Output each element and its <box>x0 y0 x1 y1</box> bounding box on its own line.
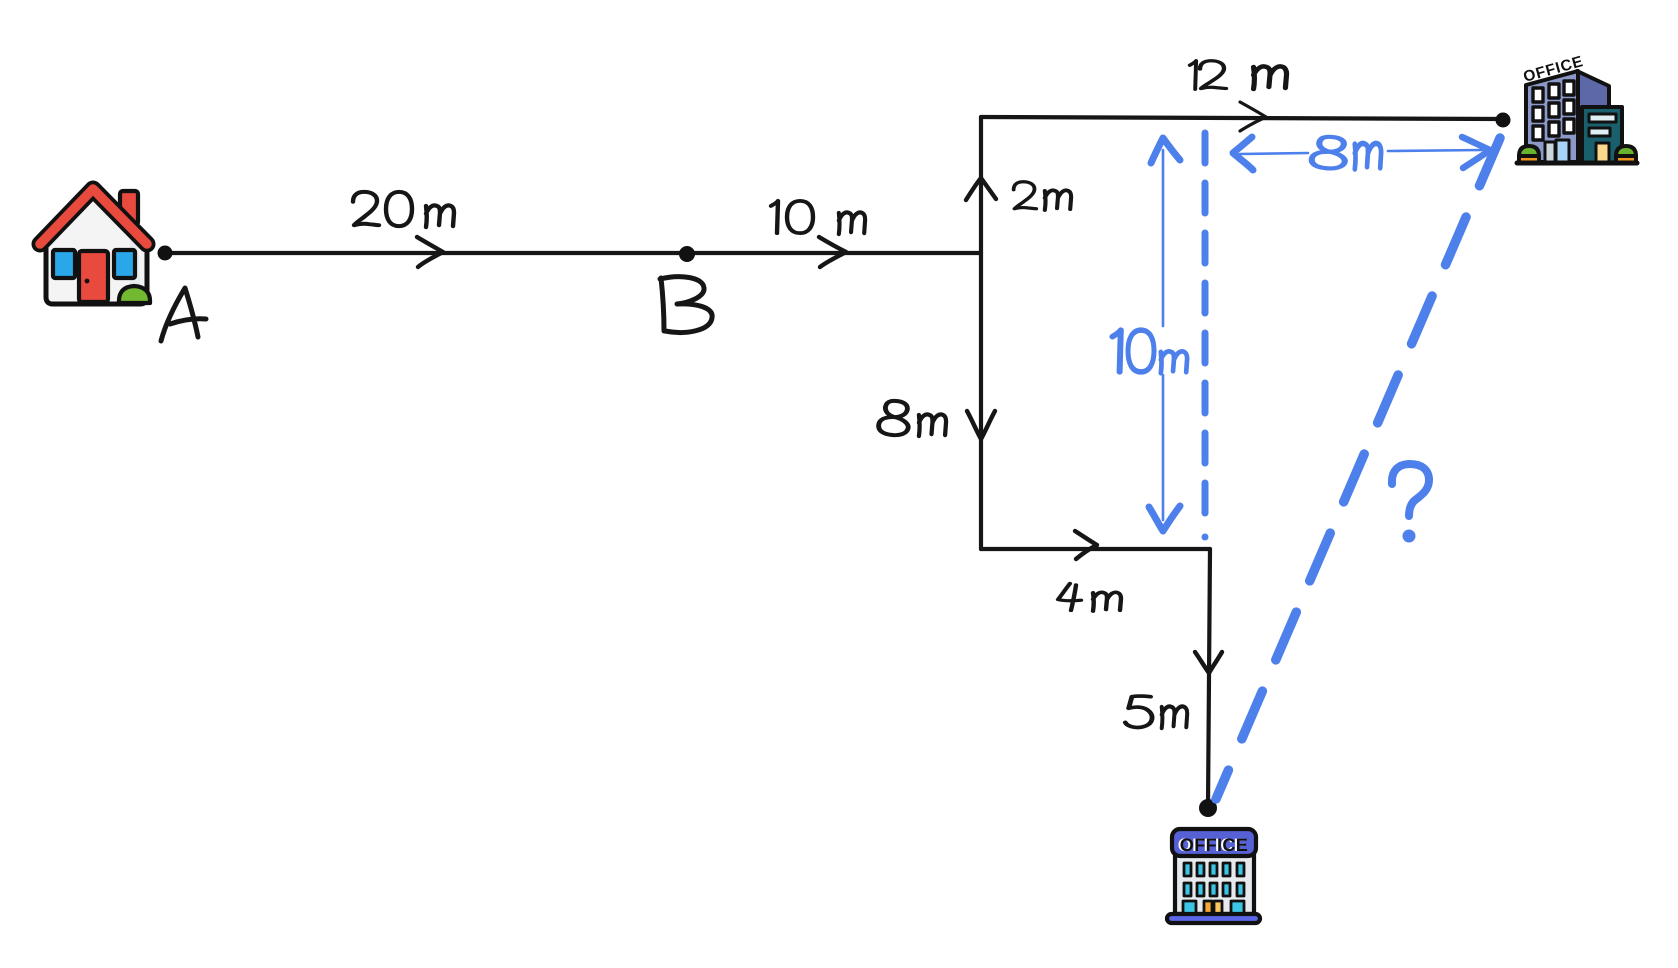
svg-text:OFFICE: OFFICE <box>1180 835 1248 855</box>
